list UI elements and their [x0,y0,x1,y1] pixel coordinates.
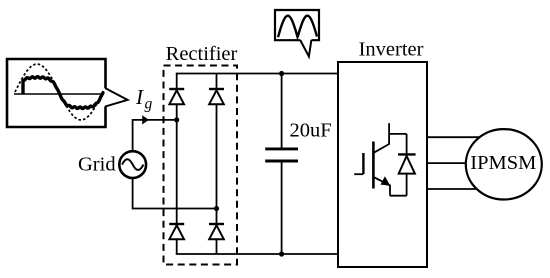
svg-text:Inverter: Inverter [359,39,424,61]
phase wire C [427,188,485,190]
IGBT body bar [372,142,375,189]
dc voltage callout box [275,10,319,40]
inverter box [338,62,427,267]
current arrow on wire [142,115,149,124]
capacitor C1 plates [265,147,298,150]
gate bar [362,153,364,174]
svg-text:g: g [145,96,153,113]
dc-link capacitor wire top [281,74,283,148]
rectifier right leg wire [216,74,218,255]
wire: AC top to rectifier left leg [133,120,177,151]
rectified waveform in callout [278,16,317,38]
DC+ top rail wire [176,73,338,75]
svg-text:IPMSM: IPMSM [470,152,536,174]
wire: collector to diode top [389,133,407,135]
dc-link capacitor wire bottom [281,162,283,254]
diode D4 (bottom right) [209,224,224,239]
svg-text:Grid: Grid [78,154,116,176]
junction node: bottom input to right leg [214,206,219,211]
motor IPMSM [466,129,542,199]
rectifier dashed box [164,66,238,265]
junction node: cap to bottom rail [279,251,284,256]
phase wire A [427,136,485,138]
callout tail to dc bus [300,40,311,57]
IGBT Q1 [354,123,390,196]
rectifier left leg wire [176,74,178,255]
svg-text:20uF: 20uF [290,120,332,142]
diode D2 (top right) [209,89,224,104]
thick distorted current wave [23,77,103,109]
diode D3 (bottom left) [169,224,184,239]
dashed sine (grid voltage) [15,64,103,120]
DC- bottom rail wire [176,253,338,255]
inset waveform box (grid current callout) [7,59,106,127]
wire: emitter to diode bottom [390,195,407,197]
wire: AC bottom to rectifier right leg [133,178,217,209]
axis line in inset [14,93,104,95]
emitter lead with arrow [373,177,390,196]
diode D1 (top left) [169,89,184,104]
svg-text:Rectifier: Rectifier [166,43,238,65]
freewheel diode D5 [398,134,416,196]
junction node: cap to top rail [279,71,284,76]
gate lead [354,173,363,175]
junction node: top input to left leg [174,117,179,122]
collector lead [374,123,390,153]
phase wire B [427,162,470,164]
callout tail of inset box [105,88,128,107]
svg-text:I: I [135,85,144,109]
AC source (grid) [119,151,146,178]
